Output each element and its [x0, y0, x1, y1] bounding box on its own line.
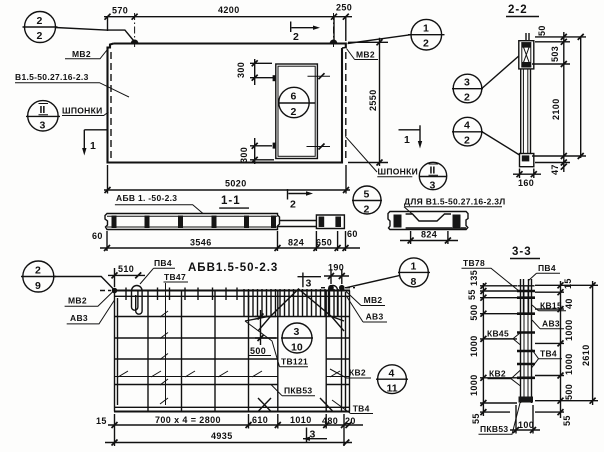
- svg-text:ДЛЯ В1.5-50.27.16-2.3Л: ДЛЯ В1.5-50.27.16-2.3Л: [404, 197, 506, 207]
- leader 1/8 to dots: [346, 276, 399, 288]
- svg-text:ТВ121: ТВ121: [281, 357, 308, 367]
- section mark 3 top: [298, 273, 322, 288]
- svg-text:4: 4: [464, 120, 470, 132]
- svg-text:3-3: 3-3: [512, 246, 532, 258]
- anchor dot right: [330, 39, 338, 43]
- svg-text:2-2: 2-2: [508, 4, 528, 16]
- svg-text:500: 500: [250, 346, 266, 356]
- leader circle 1/2 to corner: [348, 35, 411, 44]
- crossbars: [517, 291, 535, 378]
- svg-text:2: 2: [293, 31, 299, 43]
- svg-text:20: 20: [345, 416, 356, 426]
- callout circle 2/9: [23, 261, 54, 292]
- callout circle 1/2: [411, 19, 442, 50]
- svg-text:ПВ4: ПВ4: [154, 258, 172, 268]
- svg-text:10: 10: [291, 342, 303, 354]
- column outline: [521, 279, 532, 403]
- svg-text:160: 160: [518, 178, 534, 188]
- panel outline: [108, 44, 346, 163]
- svg-text:1: 1: [411, 261, 417, 273]
- svg-text:500: 500: [564, 384, 574, 400]
- mesh dot left: [112, 288, 118, 294]
- dim 160 bottom: [513, 173, 541, 175]
- mesh bottom-left hooks: [258, 398, 271, 412]
- dim 190: [324, 275, 349, 277]
- strip middle connector: [278, 221, 317, 227]
- section mark 1 right: [399, 129, 421, 131]
- dlya dim 824: [400, 240, 458, 242]
- leader 4/2: [482, 132, 520, 155]
- svg-text:1: 1: [90, 140, 96, 152]
- column bottom block: [520, 154, 534, 167]
- leader 3/2: [482, 56, 519, 89]
- strip dim line: [100, 247, 360, 249]
- svg-text:3: 3: [306, 278, 312, 290]
- TB47 hook marks: [160, 311, 168, 404]
- strip bottom inner line: [107, 226, 278, 228]
- door fixation tick bottom-left: [273, 143, 276, 149]
- door fixation tick top-left: [273, 75, 276, 81]
- door fixation line bottom-right: [307, 146, 331, 148]
- svg-text:1000: 1000: [469, 374, 479, 396]
- panel right corner step: [342, 44, 346, 49]
- svg-text:570: 570: [112, 6, 128, 16]
- svg-text:5: 5: [364, 189, 370, 201]
- hook marks row: [118, 371, 340, 377]
- left dim chain: [482, 283, 484, 416]
- svg-text:2: 2: [464, 135, 470, 147]
- column shaft: [521, 69, 531, 154]
- svg-text:МВ2: МВ2: [72, 49, 91, 59]
- svg-text:1: 1: [404, 134, 410, 146]
- svg-text:5020: 5020: [225, 179, 247, 189]
- callout circle II/3 left + shponki: [28, 101, 58, 131]
- mesh horizontal bars: [115, 316, 350, 318]
- svg-text:ТВ4: ТВ4: [353, 404, 370, 414]
- axis dash-dot right anchor: [333, 13, 335, 47]
- thin detail bar TB47 vertical: [165, 283, 167, 405]
- callout circle 1/8: [399, 258, 428, 287]
- bottom dimension 5020: [104, 189, 350, 191]
- callout circle 6/2 in door: [279, 87, 309, 117]
- svg-text:4935: 4935: [211, 431, 233, 441]
- svg-text:ПВ4: ПВ4: [538, 263, 556, 273]
- svg-text:500: 500: [469, 304, 479, 320]
- svg-text:КВ2: КВ2: [349, 368, 366, 378]
- leader circle 2/2 to anchor: [56, 28, 134, 41]
- svg-text:300: 300: [239, 147, 249, 163]
- svg-text:АВ3: АВ3: [366, 312, 384, 322]
- svg-text:510: 510: [118, 264, 134, 274]
- svg-text:503: 503: [550, 46, 560, 62]
- top dimension line 570/4200/250: [104, 16, 352, 18]
- right inner chain: [560, 281, 562, 418]
- svg-text:6: 6: [291, 91, 297, 103]
- section mark 3 bottom: [303, 428, 327, 444]
- svg-text:55: 55: [467, 289, 477, 300]
- svg-text:300: 300: [236, 62, 246, 78]
- svg-text:1000: 1000: [469, 335, 479, 357]
- callout circle 4/2: [453, 117, 482, 146]
- mesh vertical bars: [115, 291, 350, 412]
- svg-text:40: 40: [564, 298, 574, 309]
- section mark 2 top: [290, 22, 292, 33]
- svg-text:2: 2: [37, 30, 43, 42]
- door fixation line top-right: [308, 75, 331, 77]
- svg-text:2100: 2100: [551, 98, 561, 120]
- svg-text:МВ2: МВ2: [68, 296, 87, 306]
- svg-text:2: 2: [464, 92, 470, 104]
- svg-text:11: 11: [387, 383, 398, 395]
- door opening outer: [276, 64, 318, 159]
- svg-text:2550: 2550: [368, 89, 378, 111]
- svg-text:190: 190: [328, 263, 344, 273]
- svg-text:8: 8: [411, 276, 417, 288]
- mesh bottom chord: [114, 406, 350, 408]
- svg-text:2: 2: [35, 265, 41, 277]
- callout circle 5/2: [353, 186, 381, 214]
- svg-text:КВ2: КВ2: [489, 369, 506, 379]
- anchor dot left: [131, 39, 139, 43]
- svg-text:55: 55: [562, 415, 572, 426]
- lifting loop PV4 left: [131, 286, 142, 315]
- svg-text:II: II: [40, 104, 46, 116]
- door opening inner: [278, 66, 315, 156]
- svg-text:1000: 1000: [564, 353, 574, 375]
- svg-text:1010: 1010: [290, 415, 312, 425]
- svg-text:В1.5-50.27.16-2.3: В1.5-50.27.16-2.3: [15, 72, 89, 82]
- svg-text:3: 3: [294, 326, 300, 338]
- strip rib blocks: [112, 216, 277, 229]
- svg-text:АВ3: АВ3: [542, 319, 560, 329]
- svg-text:135: 135: [469, 270, 479, 286]
- panel right dashed key line: [345, 52, 347, 160]
- door dim 300 top: [254, 59, 256, 85]
- mesh dots right: [328, 285, 334, 291]
- top chord cross ticks: [126, 288, 237, 301]
- panel left dashed key line: [110, 52, 112, 159]
- dim 100: [510, 429, 540, 431]
- svg-text:ШПОНКИ: ШПОНКИ: [378, 167, 419, 177]
- svg-text:МВ2: МВ2: [364, 295, 383, 305]
- svg-text:2: 2: [37, 15, 43, 27]
- svg-text:824: 824: [421, 230, 437, 240]
- dlya piece recess: [406, 214, 466, 228]
- svg-text:ТВ78: ТВ78: [463, 258, 485, 268]
- svg-text:700 x 4 = 2800: 700 x 4 = 2800: [155, 415, 221, 425]
- svg-text:ПКВ53: ПКВ53: [480, 424, 508, 434]
- dlya piece outline: [388, 212, 468, 230]
- svg-text:АБВ1.5-50-2.3: АБВ1.5-50-2.3: [188, 262, 278, 274]
- svg-text:2: 2: [364, 204, 370, 216]
- callout circle 4/11: [378, 365, 407, 394]
- callout circle 3/10: [282, 323, 312, 353]
- dense door band verticals: [244, 289, 338, 316]
- strip top inner line: [107, 215, 278, 217]
- svg-text:МВ2: МВ2: [356, 50, 375, 60]
- leader 2/9 to dot: [54, 277, 114, 290]
- svg-text:3: 3: [430, 180, 436, 192]
- svg-text:3: 3: [40, 120, 46, 132]
- svg-text:2610: 2610: [581, 344, 591, 366]
- svg-text:610: 610: [252, 415, 268, 425]
- lifting loop PV4 right: [329, 286, 338, 317]
- door dim 300 bottom: [254, 138, 256, 164]
- svg-text:480: 480: [322, 416, 338, 426]
- dim 500: [255, 310, 276, 345]
- svg-text:15: 15: [96, 416, 107, 426]
- strip right piece: [316, 215, 344, 229]
- right dim chain: [532, 37, 586, 163]
- svg-text:650: 650: [316, 238, 332, 248]
- column top loop: [526, 33, 529, 41]
- svg-text:II: II: [430, 165, 436, 177]
- strip main piece outline: [105, 214, 280, 230]
- svg-text:ТВ4: ТВ4: [540, 349, 557, 359]
- column top block: [519, 41, 534, 69]
- svg-text:КВ15: КВ15: [540, 301, 562, 311]
- svg-text:3: 3: [464, 77, 470, 89]
- svg-text:2: 2: [291, 106, 297, 118]
- svg-text:47: 47: [550, 164, 560, 175]
- column bottom bar: [519, 397, 534, 403]
- svg-text:15: 15: [563, 278, 573, 289]
- svg-text:1000: 1000: [564, 319, 574, 341]
- mesh dim line 2 (4935): [105, 442, 352, 444]
- callout circle 3/2: [453, 74, 482, 103]
- svg-text:50: 50: [537, 25, 547, 36]
- svg-text:АВ3: АВ3: [70, 313, 88, 323]
- svg-text:60: 60: [347, 229, 358, 239]
- right dimension 2550: [348, 41, 388, 43]
- svg-text:3: 3: [310, 429, 316, 441]
- svg-text:2: 2: [290, 199, 296, 211]
- dim 510: [108, 274, 145, 276]
- svg-text:ШПОНКИ: ШПОНКИ: [62, 106, 103, 116]
- mesh dim line 1: [108, 424, 363, 426]
- svg-text:100: 100: [518, 420, 534, 430]
- svg-text:АБВ 1. -50-2.3: АБВ 1. -50-2.3: [116, 193, 177, 203]
- section mark 1 left: [84, 129, 107, 131]
- svg-text:250: 250: [336, 3, 352, 13]
- svg-text:2: 2: [423, 38, 429, 50]
- chevron diagonal: [258, 289, 344, 331]
- callout circle 2/2: [25, 12, 56, 43]
- section mark 2 bottom: [287, 189, 289, 200]
- column top cap: [518, 285, 535, 287]
- svg-text:4: 4: [389, 368, 395, 380]
- svg-text:55: 55: [471, 413, 481, 424]
- svg-text:ПКВ53: ПКВ53: [284, 386, 312, 396]
- svg-text:ТВ47: ТВ47: [164, 272, 186, 282]
- svg-text:КВ45: КВ45: [487, 329, 509, 339]
- svg-text:1: 1: [423, 23, 429, 35]
- svg-text:824: 824: [288, 238, 304, 248]
- axis dash-dot left anchor: [134, 13, 136, 47]
- svg-text:9: 9: [35, 280, 41, 292]
- svg-text:3546: 3546: [190, 238, 212, 248]
- svg-text:4200: 4200: [218, 5, 240, 15]
- column top loop 33: [524, 279, 529, 313]
- mesh top chord: [114, 289, 350, 291]
- svg-text:1-1: 1-1: [221, 195, 241, 207]
- mesh bottom-right hook: [320, 398, 333, 412]
- right outer chain 2610: [592, 281, 594, 405]
- svg-text:60: 60: [92, 231, 103, 241]
